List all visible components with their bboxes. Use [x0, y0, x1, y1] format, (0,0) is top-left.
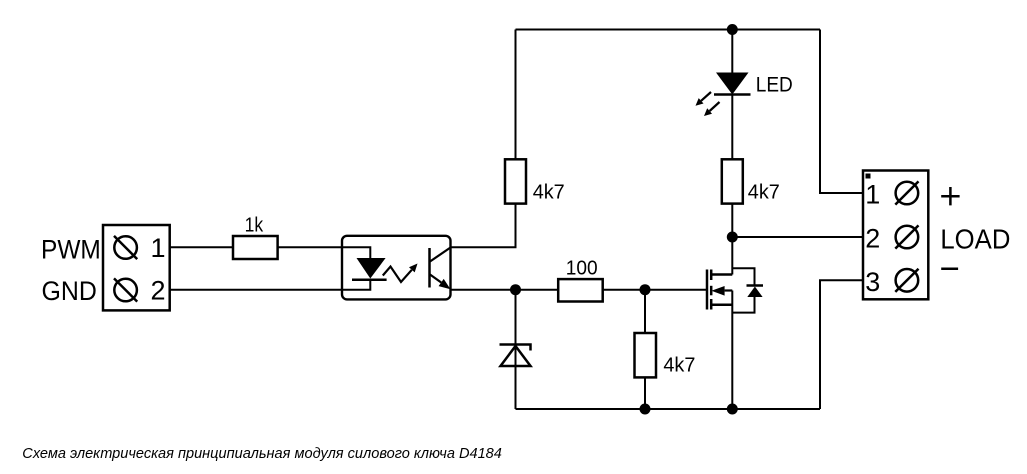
svg-text:2: 2	[865, 224, 880, 254]
svg-text:1: 1	[865, 179, 880, 209]
svg-text:4k7: 4k7	[748, 182, 780, 204]
resistor R5 100	[558, 279, 603, 301]
wire LED anode from top rail	[731, 30, 733, 73]
screw terminal J2-3	[895, 269, 918, 292]
resistor R2 4k7	[505, 159, 526, 203]
wire right rail down to LOAD pin1	[820, 30, 863, 194]
opto LED triangle	[357, 258, 386, 279]
minus sign	[941, 268, 958, 271]
junction node emitter	[510, 284, 521, 295]
MOSFET Q1 body arrow	[725, 289, 733, 291]
svg-text:Схема электрическая принципиал: Схема электрическая принципиальная модул…	[22, 446, 502, 462]
wire R4 column	[644, 290, 646, 409]
wire bottom rail	[516, 408, 821, 410]
junction node source bottom	[727, 404, 738, 415]
screw terminal J1-1	[114, 236, 137, 259]
junction node gate	[640, 284, 651, 295]
LED light arrow 1	[701, 92, 711, 101]
svg-text:3: 3	[865, 267, 880, 297]
svg-text:GND: GND	[42, 276, 97, 306]
MOSFET Q1 channel segment bottom	[710, 299, 713, 310]
LED D1 triangle	[716, 73, 749, 95]
wire top rail	[516, 29, 821, 31]
resistor R1 1k	[233, 236, 278, 259]
svg-text:2: 2	[150, 276, 165, 306]
screw terminal J1-2	[114, 278, 137, 301]
svg-text:4k7: 4k7	[663, 355, 695, 377]
opto phototransistor emitter	[430, 275, 441, 283]
resistor R4 4k7	[635, 333, 657, 377]
MOSFET Q1 source bar	[711, 304, 732, 307]
plus sign	[941, 187, 959, 205]
junction node top rail	[727, 24, 738, 35]
svg-text:PWM: PWM	[41, 235, 101, 265]
wire zener / source node column	[515, 290, 517, 409]
zener diode D4 triangle	[501, 346, 531, 366]
MOSFET Q1 channel segment middle	[710, 286, 713, 296]
resistor R3 4k7	[722, 159, 743, 203]
wire pin1 row from J1 to opto	[170, 246, 342, 248]
body diode D3 anode lead	[732, 297, 754, 313]
J2 pin1 marker	[866, 174, 871, 179]
opto phototransistor base bar	[428, 248, 431, 288]
junction node R4 bottom	[640, 404, 651, 415]
screw terminal J2-1	[895, 181, 918, 204]
terminal block J1	[103, 225, 170, 310]
op-to-coupler U1 box	[342, 236, 451, 300]
MOSFET Q1 drain bar	[711, 273, 732, 276]
svg-text:1k: 1k	[245, 215, 264, 237]
junction node D drain	[727, 232, 738, 243]
wire source down	[731, 291, 733, 410]
wire bottom riser to LOAD pin3	[820, 280, 863, 409]
zener diode D4 cathode bar	[500, 345, 531, 351]
wire emitter row / gate row	[451, 289, 707, 291]
terminal block J2 LOAD	[863, 171, 928, 300]
wire node D to LOAD pin2	[732, 236, 863, 238]
opto LED cathode bar	[352, 278, 387, 281]
svg-text:100: 100	[566, 258, 598, 280]
wire drain	[731, 237, 733, 275]
opto LED cathode lead	[342, 280, 370, 290]
MOSFET Q1 channel segment top	[710, 270, 713, 281]
opto LED anode lead	[342, 247, 370, 258]
body diode D3 cathode bar	[747, 284, 764, 287]
screw terminal J2-2	[895, 225, 918, 248]
opto phototransistor collector	[430, 248, 451, 262]
svg-text:LED: LED	[756, 73, 793, 96]
wire collector out of opto up to R2	[451, 159, 516, 247]
wire pin2 row from J1 to opto	[170, 289, 342, 291]
body diode D3 triangle	[747, 287, 762, 298]
svg-text:LOAD: LOAD	[940, 223, 1010, 254]
MOSFET Q1 gate bar	[706, 270, 709, 310]
LED light arrow 2	[710, 102, 720, 111]
svg-text:4k7: 4k7	[533, 182, 565, 204]
wire R3 bottom to node D	[731, 204, 733, 237]
wire R2 top to top rail	[515, 30, 517, 204]
body diode D3 branch	[732, 268, 754, 285]
svg-text:1: 1	[150, 233, 165, 263]
opto light zigzag arrow	[383, 267, 412, 283]
LED D1 cathode bar	[714, 93, 751, 96]
wire LED cathode to R3	[731, 95, 733, 160]
